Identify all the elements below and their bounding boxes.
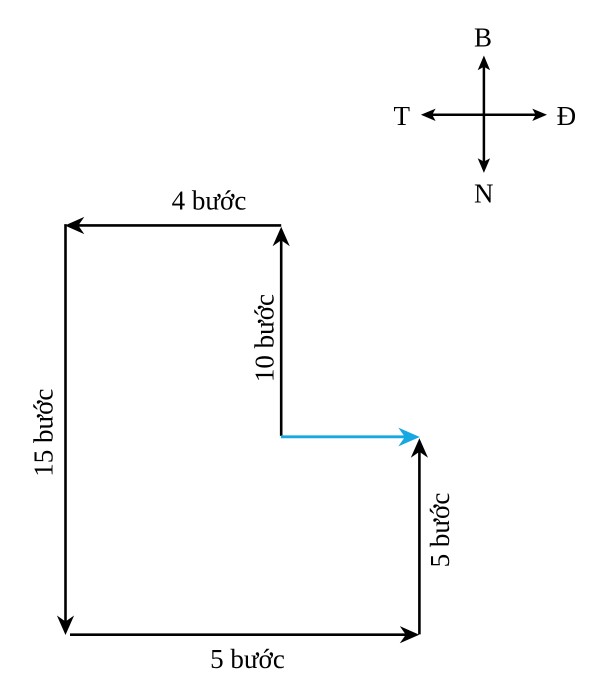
compass arrow east tip <box>532 109 547 121</box>
right vertical line (5 buoc) <box>418 452 421 635</box>
svg-text:4 bước: 4 bước <box>172 185 247 215</box>
svg-text:10 bước: 10 bước <box>250 294 280 382</box>
arrow down tip (left line) <box>57 616 74 636</box>
svg-text:T: T <box>393 101 410 131</box>
top horizontal line (4 buoc) <box>78 224 281 227</box>
svg-text:5 bước: 5 bước <box>210 644 285 674</box>
arrow up tip (right line) <box>411 438 428 458</box>
svg-text:15 bước: 15 bước <box>28 389 58 477</box>
left vertical line (15 buoc) <box>64 224 67 622</box>
blue arrow tip <box>398 428 420 447</box>
blue arrow line <box>281 435 406 438</box>
svg-text:N: N <box>474 179 494 209</box>
middle vertical line (10 buoc) <box>280 240 283 436</box>
arrow right tip (bottom line) <box>400 626 420 643</box>
arrow up tip (middle line) <box>273 227 290 247</box>
svg-text:Đ: Đ <box>557 101 577 131</box>
arrow left tip (top line) <box>65 217 85 234</box>
compass arrow west tip <box>421 109 436 121</box>
compass vertical line <box>432 66 537 162</box>
svg-text:B: B <box>474 22 492 52</box>
compass horizontal line <box>432 114 537 117</box>
compass arrow north tip <box>478 56 490 71</box>
bottom horizontal line (5 buoc) <box>70 633 406 636</box>
compass arrow south tip <box>478 158 490 173</box>
main path lines <box>66 224 420 635</box>
svg-text:5 bước: 5 bước <box>425 493 455 568</box>
